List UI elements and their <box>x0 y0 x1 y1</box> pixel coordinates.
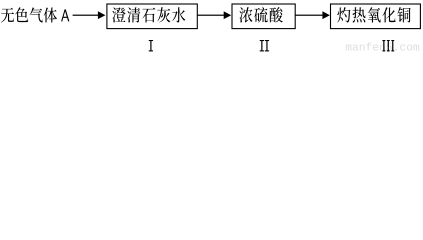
wire: arrow box II to box III <box>295 11 330 19</box>
text: 浓硫酸 <box>239 7 282 23</box>
wire: arrow box I to box II <box>197 11 231 19</box>
box III: rect 灼热氧化铜 (hot copper oxide) <box>331 4 421 29</box>
wire: arrow from A to box I <box>73 11 106 19</box>
svg-text:manfen5.com: manfen5.com <box>345 43 420 53</box>
node label: numeral III under box III <box>382 40 394 51</box>
node label: numeral I under box I <box>149 40 153 51</box>
label: gas name A <box>61 9 69 21</box>
box I: rect 澄清石灰水 (limewater) <box>107 4 197 29</box>
text: 澄清石灰水 <box>112 7 185 22</box>
box II: rect 浓硫酸 (conc. sulfuric acid) <box>232 4 295 29</box>
node label: numeral II under box II <box>260 40 269 51</box>
label: input gas text 无色气体 <box>1 7 57 22</box>
text: 灼热氧化铜 <box>337 7 410 22</box>
